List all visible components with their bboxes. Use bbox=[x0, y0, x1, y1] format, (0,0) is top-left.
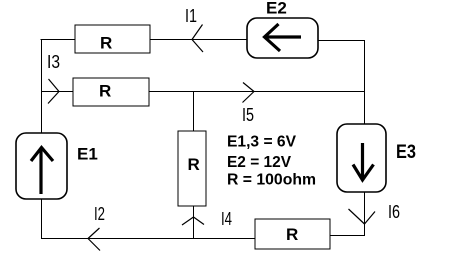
svg-text:R = 100ohm: R = 100ohm bbox=[227, 172, 316, 189]
voltage source E3 bbox=[337, 124, 386, 192]
svg-text:E1,3 = 6V: E1,3 = 6V bbox=[227, 134, 296, 151]
current arrow I4 bbox=[182, 217, 204, 225]
resistor R2 (second branch) bbox=[73, 78, 149, 106]
svg-text:E1: E1 bbox=[77, 145, 98, 164]
wire right rail upper bbox=[364, 40, 366, 125]
svg-text:E3: E3 bbox=[396, 142, 416, 163]
resistor R4 (bottom branch) bbox=[255, 219, 330, 249]
wire left rail vertical bbox=[41, 39, 43, 133]
wire middle vertical upper bbox=[193, 91, 195, 132]
svg-text:I6: I6 bbox=[388, 202, 400, 222]
wire right rail lower from E3 to bottom wire bbox=[364, 192, 366, 236]
resistor R1 (top branch) bbox=[75, 25, 150, 53]
wire middle vertical lower bbox=[193, 206, 195, 239]
voltage source E2 bbox=[247, 18, 318, 58]
svg-text:E2 = 12V: E2 = 12V bbox=[227, 154, 291, 171]
svg-text:R: R bbox=[286, 225, 298, 244]
wire top-mid horizontal from R1 to E2 bbox=[150, 39, 248, 41]
current arrow I2 bbox=[88, 228, 100, 251]
svg-text:R: R bbox=[100, 34, 112, 53]
current arrow I5 bbox=[243, 83, 255, 103]
svg-text:I1: I1 bbox=[185, 6, 197, 26]
voltage source E1 bbox=[16, 133, 67, 199]
wire left rail lower from E1 to bottom wire bbox=[41, 199, 43, 239]
svg-text:R: R bbox=[99, 82, 111, 101]
wire top-left horizontal from left rail to R1 bbox=[41, 39, 76, 41]
svg-text:E2: E2 bbox=[266, 0, 287, 18]
current arrow I1 bbox=[192, 25, 203, 53]
wire top-right horizontal E2 to right rail bbox=[318, 40, 365, 42]
resistor R3 (middle vertical) bbox=[178, 131, 206, 206]
current arrow I6 bbox=[349, 209, 376, 224]
wire second-branch left segment bbox=[41, 91, 74, 93]
svg-text:I2: I2 bbox=[94, 204, 105, 224]
svg-text:I5: I5 bbox=[242, 105, 254, 125]
svg-text:R: R bbox=[188, 155, 200, 174]
svg-text:I3: I3 bbox=[47, 52, 60, 72]
wire bottom left segment bbox=[41, 238, 256, 240]
wire second-branch right segment to right rail bbox=[149, 91, 365, 93]
current arrow I3 bbox=[48, 79, 59, 104]
svg-text:I4: I4 bbox=[221, 209, 232, 229]
wire bottom right segment R4 to right rail bbox=[330, 235, 365, 237]
